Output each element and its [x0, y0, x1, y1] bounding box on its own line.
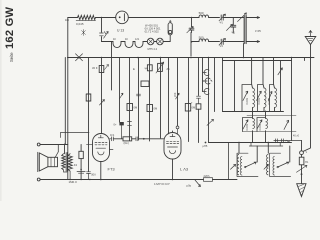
svg-text:μ0η: μ0η	[187, 183, 192, 187]
svg-text:0.003: 0.003	[267, 97, 271, 104]
svg-text:0.003: 0.003	[245, 123, 249, 130]
svg-text:Ψ0: Ψ0	[145, 67, 149, 71]
svg-text:220Λ: 220Λ	[204, 174, 210, 178]
svg-text:0M: 0M	[134, 106, 138, 110]
svg-text:40 ≠0: 40 ≠0	[293, 135, 300, 138]
svg-text:1ΜΠΟΛΡ: 1ΜΠΟΛΡ	[154, 182, 170, 186]
svg-text:Ε: Ε	[133, 67, 135, 71]
svg-text:FT3: FT3	[108, 167, 116, 172]
svg-text:0M: 0M	[154, 107, 158, 111]
svg-text:MT5 4.2: MT5 4.2	[148, 47, 158, 51]
svg-text:≠0Σ: ≠0Σ	[173, 92, 177, 97]
svg-text:0≠1: 0≠1	[110, 133, 115, 137]
svg-text:162 GW: 162 GW	[4, 7, 16, 49]
svg-text:405: 405	[65, 19, 70, 22]
svg-text:≠0 Σ: ≠0 Σ	[92, 66, 98, 70]
svg-text:500: 500	[199, 11, 204, 15]
svg-text:≠ 05: ≠ 05	[255, 29, 261, 33]
svg-text:0.003: 0.003	[245, 97, 249, 104]
svg-text:50Λ: 50Λ	[91, 173, 96, 177]
svg-text:0,045: 0,045	[76, 22, 84, 26]
svg-text:01 Γ2 4 502: 01 Γ2 4 502	[145, 29, 160, 33]
svg-text:(0m): (0m)	[124, 141, 129, 145]
svg-text:μΠ5: μΠ5	[203, 144, 208, 148]
svg-text:0.003: 0.003	[257, 97, 261, 104]
svg-text:U 13: U 13	[117, 29, 124, 33]
svg-text:L Λ3: L Λ3	[180, 167, 189, 172]
svg-text:1M0·0: 1M0·0	[69, 180, 78, 184]
svg-text:0.003: 0.003	[258, 123, 262, 130]
svg-text:500: 500	[199, 36, 204, 40]
svg-text:0M: 0M	[192, 106, 196, 110]
svg-text:1Λ1: 1Λ1	[135, 38, 140, 41]
svg-text:δ5: δ5	[167, 67, 171, 71]
svg-text:Seite: Seite	[9, 52, 14, 62]
